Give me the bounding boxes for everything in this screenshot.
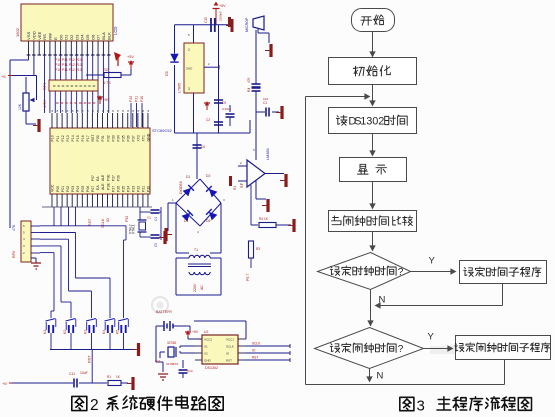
svg-text:X2: X2 [204,352,208,356]
svg-text:RS: RS [42,34,47,40]
svg-text:D2: D2 [69,34,74,40]
svg-text:P12: P12 [61,135,65,141]
svg-text:K4: K4 [102,330,106,334]
svg-text:P22: P22 [129,96,133,102]
svg-text:P10: P10 [51,135,55,141]
svg-text:P37: P37 [132,135,136,141]
svg-text:D4: D4 [184,219,188,223]
svg-text:2200uF: 2200uF [219,11,223,21]
svg-text:ALE: ALE [101,174,105,181]
svg-text:PSE: PSE [106,174,110,181]
svg-text:2: 2 [188,48,190,52]
svg-text:P04: P04 [76,186,80,192]
svg-text:C11: C11 [69,372,75,376]
svg-text:XT1: XT1 [142,135,146,141]
svg-text:P26: P26 [116,175,120,181]
svg-text:D5: D5 [206,219,210,223]
svg-text:SCLK: SCLK [226,345,234,349]
svg-text:P26: P26 [116,186,120,192]
svg-text:C2: C2 [206,118,210,122]
svg-text:N: N [379,295,386,306]
svg-text:P05: P05 [81,186,85,192]
svg-text:P22: P22 [137,186,141,192]
svg-text:RST: RST [226,359,232,363]
svg-text:P07: P07 [91,175,95,181]
svg-text:GND: GND [147,133,151,141]
svg-text:3: 3 [417,398,425,415]
svg-text:K2: K2 [63,330,67,334]
svg-text:P32: P32 [106,135,110,141]
svg-text:P07: P07 [91,186,95,192]
svg-text:104: 104 [263,97,268,101]
svg-text:RST: RST [252,356,258,360]
svg-text:P27: P27 [111,175,115,181]
svg-text:E: E [53,37,58,40]
svg-text:DS1302: DS1302 [205,366,218,370]
svg-text:P00: P00 [56,186,60,192]
svg-text:+5: +5 [2,381,7,386]
svg-text:2: 2 [378,116,384,128]
svg-text:RP1: RP1 [43,83,47,90]
svg-text:47K: 47K [12,224,16,231]
svg-text:P01: P01 [61,186,65,192]
svg-text:ALE: ALE [101,183,105,190]
svg-text:+5V: +5V [219,4,226,8]
svg-text:C10: C10 [187,369,193,373]
svg-text:?: ? [398,267,404,278]
svg-text:AC: AC [200,285,204,290]
svg-text:R1: R1 [233,186,237,190]
svg-text:C6: C6 [201,145,205,149]
svg-text:GND: GND [204,359,212,363]
svg-text:VSS: VSS [26,31,31,39]
svg-text:D5: D5 [85,34,90,40]
svg-text:BATTERY: BATTERY [156,310,173,314]
svg-text:P27: P27 [111,186,115,192]
svg-text:MICROP: MICROP [245,17,249,32]
svg-text:RST: RST [88,355,92,363]
svg-text:3: 3 [188,87,190,91]
svg-text:P21: P21 [142,186,146,192]
svg-text:GND: GND [186,67,192,71]
svg-text:X1: X1 [204,345,208,349]
svg-text:P10 P11 P12 P13: P10 P11 P12 P13 [55,63,82,67]
svg-text:PSE: PSE [106,182,110,190]
svg-text:P14: P14 [71,135,75,141]
svg-text:2: 2 [90,397,99,414]
svg-text:10K: 10K [18,103,22,110]
svg-text:P25: P25 [121,186,125,192]
svg-text:K5: K5 [116,330,120,334]
svg-text:P17: P17 [86,135,90,141]
svg-text:IO: IO [252,349,256,353]
svg-text:XT2: XT2 [137,135,141,141]
svg-text:P02: P02 [66,186,70,192]
svg-text:P11: P11 [56,135,60,141]
svg-text:+5V: +5V [127,55,134,59]
svg-text:DIODE4: DIODE4 [179,181,183,194]
svg-text:D1: D1 [64,34,69,40]
svg-text:C11: C11 [155,359,161,363]
svg-text:LM386: LM386 [266,148,270,160]
svg-text:P24: P24 [126,186,130,192]
svg-text:Y: Y [429,256,436,267]
svg-text:XTAL1: XTAL1 [132,224,136,234]
svg-text:L7805: L7805 [178,83,182,93]
svg-text:D7: D7 [96,34,101,40]
svg-text:P06: P06 [86,186,90,192]
svg-text:C5: C5 [154,243,158,247]
svg-text:P20: P20 [140,96,144,102]
svg-text:+5: +5 [1,74,6,79]
svg-text:C9: C9 [222,101,226,105]
svg-text:R4: R4 [247,88,251,92]
svg-text:BLK: BLK [106,32,111,40]
svg-text:220V: 220V [193,283,197,292]
svg-text:P15: P15 [76,135,80,141]
svg-text:VEE: VEE [37,31,42,39]
svg-text:P21: P21 [135,96,139,102]
svg-text:K3: K3 [84,330,88,334]
svg-text:D5: D5 [165,71,169,76]
svg-text:D6: D6 [90,34,95,40]
svg-text:RST: RST [88,218,92,226]
svg-text:R3: R3 [256,247,260,251]
svg-text:P30: P30 [96,135,100,141]
svg-text:4.7K: 4.7K [43,100,47,108]
svg-text:C1: C1 [263,101,267,105]
svg-text:EA: EA [96,185,100,190]
svg-text:P35: P35 [121,135,125,141]
svg-text:32768: 32768 [167,341,176,345]
svg-text:Y: Y [428,332,435,343]
svg-text:R2: R2 [103,68,108,72]
svg-text:C15: C15 [204,17,208,23]
svg-text:VCC1: VCC1 [226,338,234,342]
svg-text:D3: D3 [74,34,79,40]
svg-text:VCC: VCC [51,184,55,192]
svg-text:P20: P20 [147,186,151,192]
svg-text:D2: D2 [206,174,210,178]
svg-text:P31: P31 [101,135,105,141]
svg-text:Y1: Y1 [147,216,151,220]
svg-text:P10 P11 P12 P13: P10 P11 P12 P13 [55,68,82,72]
svg-text:P34: P34 [116,135,120,141]
svg-text:P03: P03 [71,186,75,192]
svg-text:SCLK: SCLK [252,342,261,346]
svg-text:10uF: 10uF [80,371,88,375]
svg-text:P10 P11 P12 P13: P10 P11 P12 P13 [55,58,82,62]
svg-text:BLA: BLA [101,32,106,40]
svg-text:D0: D0 [58,34,63,40]
svg-text:P16: P16 [81,135,85,141]
svg-text:47K: 47K [247,76,251,83]
svg-text:P23: P23 [132,186,136,192]
svg-text:RST: RST [91,134,95,142]
svg-text:4.7K: 4.7K [103,81,111,85]
svg-text:P5.7: P5.7 [246,274,250,281]
svg-text:D1: D1 [186,175,190,179]
svg-text:+5V: +5V [103,98,110,102]
svg-text:RP0: RP0 [12,251,16,258]
svg-text:P52: P52 [125,216,129,222]
svg-text:R1: R1 [240,184,244,188]
svg-text:32768XZ: 32768XZ [166,362,178,366]
svg-text:?: ? [398,344,404,355]
svg-text:R1: R1 [107,375,111,379]
svg-text:P36: P36 [126,135,130,141]
svg-text:LCD: LCD [113,27,118,35]
svg-text:R4 1K: R4 1K [259,217,269,221]
svg-text:T1: T1 [194,248,198,252]
svg-text:IO: IO [106,218,110,222]
svg-text:1602: 1602 [15,27,20,37]
svg-text:VDD: VDD [32,31,37,40]
svg-text:STC89C52: STC89C52 [152,128,173,133]
svg-text:RW: RW [48,33,53,40]
svg-text:K1: K1 [43,330,47,334]
svg-text:C4: C4 [154,217,158,221]
svg-text:P13: P13 [66,135,70,141]
svg-text:+5V: +5V [192,330,199,334]
svg-text:P33: P33 [111,135,115,141]
svg-text:N: N [377,371,384,382]
svg-text:U2: U2 [204,330,208,334]
svg-text:SCLK: SCLK [101,218,105,228]
svg-text:D4: D4 [80,34,85,40]
svg-text:VCC2: VCC2 [204,338,212,342]
